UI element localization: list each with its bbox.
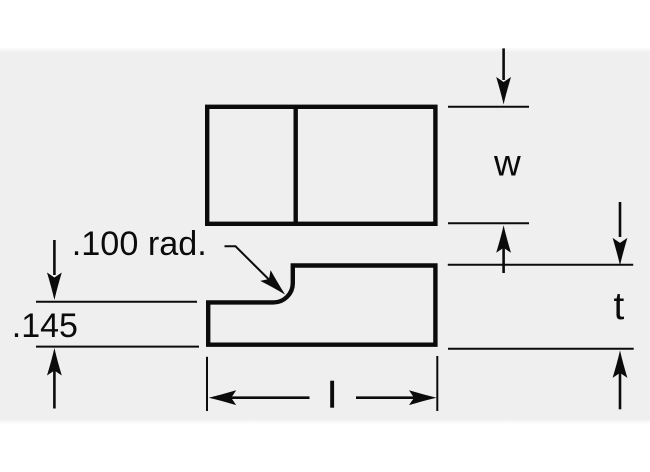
.100 rad. leader arrowhead — [260, 270, 290, 300]
w bottom extension line — [448, 222, 529, 224]
bottom view outline with fillet — [208, 266, 435, 345]
top view rectangle — [207, 107, 435, 224]
svg-text:.100 rad.: .100 rad. — [72, 225, 207, 263]
w top arrow shaft — [502, 48, 505, 80]
l dimension line left segment — [228, 396, 310, 399]
l right extension line — [436, 356, 438, 411]
.145 bottom arrow shaft — [53, 369, 56, 409]
t top extension line — [448, 264, 633, 266]
top view divider line — [294, 107, 298, 224]
t top arrowhead — [613, 238, 628, 266]
l left arrowhead — [209, 390, 237, 405]
l dimension line right segment — [356, 396, 417, 399]
t bottom extension line — [448, 348, 634, 350]
.100 rad. leader line — [225, 246, 276, 286]
svg-text:.145: .145 — [12, 307, 78, 345]
.145 top arrowhead — [47, 273, 62, 301]
.145 bottom extension line — [36, 346, 199, 348]
l left extension line — [206, 357, 208, 411]
t top arrow shaft — [619, 202, 622, 237]
l right arrowhead — [409, 390, 437, 405]
w top extension line — [448, 106, 529, 108]
.145 top arrow shaft — [53, 240, 56, 275]
svg-text:w: w — [493, 143, 521, 184]
t bottom arrow shaft — [619, 372, 622, 410]
w bottom arrowhead — [496, 225, 511, 253]
w top arrowhead — [496, 77, 511, 105]
.145 bottom arrowhead — [47, 348, 62, 376]
.145 top extension line — [36, 301, 197, 303]
t bottom arrowhead — [613, 350, 628, 378]
svg-text:t: t — [614, 285, 625, 328]
gray stage band — [0, 47, 650, 424]
w bottom arrow shaft — [502, 246, 505, 273]
l label — [330, 381, 334, 408]
